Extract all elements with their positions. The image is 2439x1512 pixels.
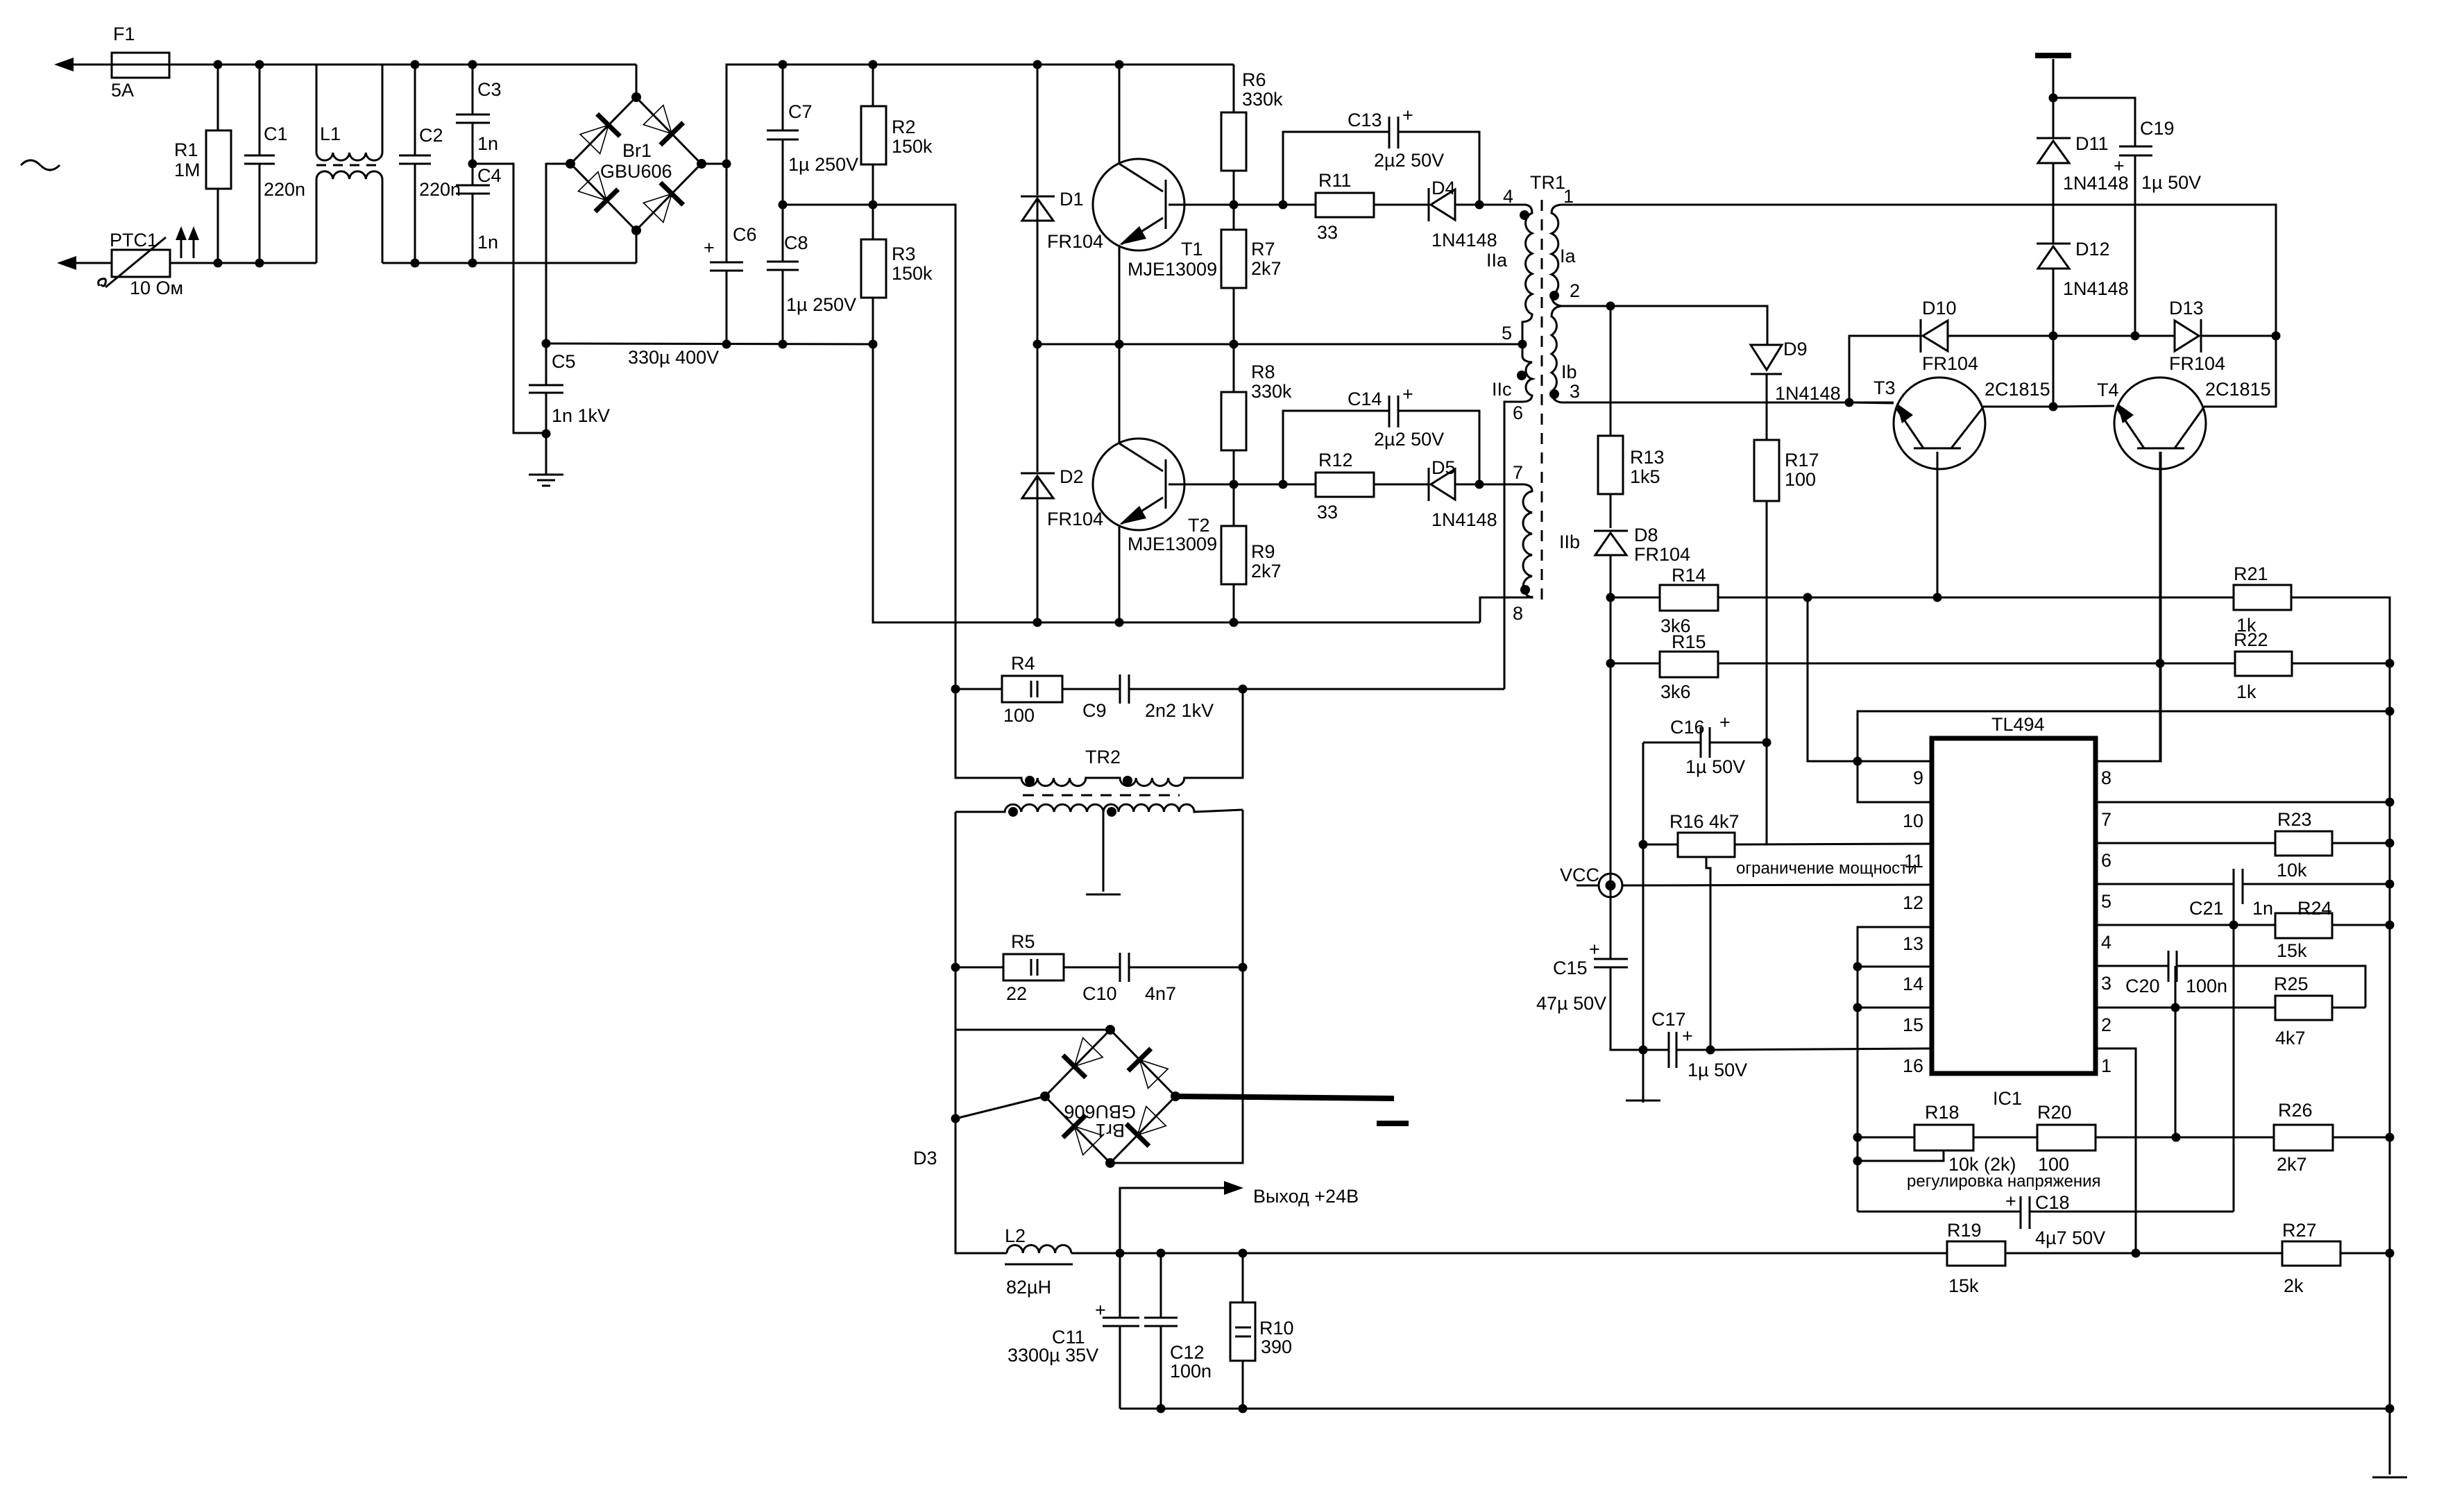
wire C3/C4 mid to down-column bbox=[473, 164, 546, 433]
wire T2 base line bbox=[1234, 484, 1283, 486]
TR1 winding IIc bbox=[1492, 344, 1532, 689]
svg-text:Ia: Ia bbox=[1560, 246, 1577, 266]
node T4 base / R22 bbox=[2156, 659, 2165, 668]
svg-text:GBU606: GBU606 bbox=[600, 161, 672, 182]
resistor R27 bbox=[2282, 1220, 2340, 1296]
node R8 bottom / T2 base bbox=[1230, 480, 1239, 489]
power bar top right bbox=[2035, 56, 2071, 98]
node bottom rail right bbox=[2386, 1404, 2395, 1413]
svg-text:22: 22 bbox=[1006, 983, 1027, 1004]
node C20 drop bbox=[2171, 1003, 2180, 1012]
svg-text:1n: 1n bbox=[477, 133, 498, 154]
wire C17 to pin16 bbox=[1710, 1048, 1932, 1050]
svg-text:2: 2 bbox=[2101, 1014, 2111, 1035]
wire to TR1 pin4 bbox=[1479, 204, 1525, 206]
svg-text:TR1: TR1 bbox=[1530, 172, 1565, 193]
svg-text:+: + bbox=[704, 237, 715, 258]
svg-text:1N4148: 1N4148 bbox=[1431, 230, 1497, 250]
inductor L1 (common-mode choke) bbox=[316, 65, 382, 263]
svg-text:D5: D5 bbox=[1431, 457, 1456, 478]
resistor R3 bbox=[861, 205, 933, 344]
svg-text:5A: 5A bbox=[111, 80, 134, 101]
svg-text:4: 4 bbox=[2101, 932, 2111, 953]
svg-text:L1: L1 bbox=[320, 124, 341, 144]
svg-text:10 Ом: 10 Ом bbox=[130, 278, 183, 298]
node D1 top bbox=[1033, 60, 1042, 69]
capacitor C2 bbox=[399, 65, 461, 263]
capacitor C16 bbox=[1643, 712, 1767, 777]
svg-text:2k: 2k bbox=[2284, 1275, 2304, 1296]
diode D1 bbox=[1021, 65, 1103, 344]
node D2 bottom bbox=[1033, 618, 1042, 627]
node C10 right bbox=[1239, 963, 1248, 972]
node C17 right bbox=[1706, 1046, 1715, 1055]
TR1 winding Ib bbox=[1552, 306, 1577, 402]
svg-text:6: 6 bbox=[2101, 850, 2111, 871]
svg-text:2µ2 50V: 2µ2 50V bbox=[1374, 429, 1444, 450]
ground bbox=[529, 475, 563, 486]
node C3 top bbox=[468, 60, 477, 69]
svg-text:+: + bbox=[2005, 1191, 2016, 1212]
transistor T1 bbox=[1093, 65, 1234, 344]
svg-text:C16: C16 bbox=[1670, 717, 1705, 738]
node Br1 top bbox=[631, 92, 641, 102]
svg-text:+: + bbox=[1402, 105, 1413, 126]
node C16 right bbox=[1762, 738, 1771, 747]
node TR1 pin3 phase dot bbox=[1549, 389, 1559, 399]
ground bottom right bbox=[2372, 1409, 2407, 1477]
resistor R15 bbox=[1611, 631, 2235, 702]
node bridge2 bottom bbox=[1105, 1158, 1115, 1168]
svg-text:R6: R6 bbox=[1242, 69, 1266, 90]
wire AC-mid line bbox=[546, 343, 873, 344]
resistor R8 bbox=[1221, 344, 1292, 484]
node T1 emitter bbox=[1115, 340, 1124, 349]
svg-text:4µ7 50V: 4µ7 50V bbox=[2035, 1228, 2105, 1248]
svg-text:390: 390 bbox=[1261, 1336, 1292, 1357]
node T1 collector top bbox=[1115, 60, 1124, 69]
node D1 mid bbox=[1033, 340, 1042, 349]
AC input arrow bottom bbox=[57, 256, 112, 270]
svg-text:IIb: IIb bbox=[1559, 532, 1580, 552]
svg-text:100: 100 bbox=[1003, 705, 1035, 726]
node R6 bottom / T1 base bbox=[1230, 201, 1239, 210]
ground C15/C17 bbox=[1626, 1100, 1660, 1102]
resistor R7 bbox=[1221, 205, 1282, 344]
node pin7 right bbox=[2386, 798, 2395, 807]
pin 9 bbox=[1808, 597, 1932, 788]
svg-text:16: 16 bbox=[1903, 1055, 1923, 1076]
node D3 tap bbox=[951, 1114, 960, 1123]
TR1 winding IIa bbox=[1486, 205, 1532, 344]
wire Br1 + output to C6 bbox=[702, 163, 726, 165]
IC1 TL494 box bbox=[1932, 714, 2096, 1109]
transistor T4 bbox=[2053, 336, 2276, 761]
pin 13 bbox=[1858, 927, 1932, 1212]
diode D4 bbox=[1429, 178, 1497, 250]
svg-text:1µ 250V: 1µ 250V bbox=[786, 294, 856, 315]
svg-text:C6: C6 bbox=[733, 224, 757, 245]
svg-text:100n: 100n bbox=[2186, 976, 2227, 996]
wire TR2 secondary left down bbox=[955, 812, 957, 1253]
svg-text:FR104: FR104 bbox=[1047, 231, 1103, 252]
svg-text:PTC1: PTC1 bbox=[110, 230, 158, 250]
svg-text:8: 8 bbox=[2101, 767, 2111, 788]
node R7 bottom bbox=[1230, 340, 1239, 349]
pin 14 bbox=[1858, 967, 1932, 994]
svg-text:11: 11 bbox=[1904, 851, 1923, 872]
svg-text:T3: T3 bbox=[1873, 377, 1896, 398]
svg-text:R22: R22 bbox=[2234, 629, 2268, 650]
svg-text:T4: T4 bbox=[2097, 380, 2119, 400]
wire bottom rail after L1 bbox=[382, 262, 636, 264]
svg-text:C1: C1 bbox=[264, 124, 288, 144]
svg-text:2k7: 2k7 bbox=[1251, 258, 1282, 279]
svg-text:GBU606: GBU606 bbox=[1064, 1101, 1136, 1122]
svg-text:1µ 50V: 1µ 50V bbox=[1688, 1060, 1747, 1080]
capacitor C18 (electrolytic) bbox=[2005, 1191, 2234, 1248]
svg-text:D12: D12 bbox=[2075, 239, 2110, 260]
wire TR2 secondary right down bbox=[1242, 810, 1244, 1161]
svg-text:FR104: FR104 bbox=[1922, 353, 1978, 374]
svg-text:2µ2 50V: 2µ2 50V bbox=[1374, 150, 1444, 171]
svg-text:Br1: Br1 bbox=[622, 140, 652, 161]
diode D10 bbox=[1849, 298, 2053, 402]
svg-text:100: 100 bbox=[1785, 469, 1816, 490]
resistor R19 bbox=[1947, 1220, 2005, 1296]
node C13 tap bbox=[1279, 201, 1288, 210]
svg-text:12: 12 bbox=[1903, 892, 1923, 913]
resistor R22 bbox=[2234, 629, 2390, 702]
node R9 bottom bbox=[1230, 618, 1239, 627]
node TR1 IIa phase dot bbox=[1520, 210, 1529, 220]
resistor R6 bbox=[1221, 65, 1283, 205]
wire R3 bottom to emitter rail bbox=[873, 344, 1480, 622]
node pin14 bracket bbox=[1853, 962, 1862, 971]
svg-text:R23: R23 bbox=[2277, 809, 2312, 830]
wire bottom return rail bbox=[1120, 1408, 2390, 1410]
svg-text:1µ 250V: 1µ 250V bbox=[788, 154, 858, 175]
svg-text:4: 4 bbox=[1503, 186, 1513, 207]
node pin9 bracket bbox=[1853, 757, 1862, 766]
svg-text:R9: R9 bbox=[1251, 541, 1275, 562]
node C5 top bbox=[542, 339, 551, 348]
svg-text:FR104: FR104 bbox=[1047, 509, 1103, 529]
svg-text:10: 10 bbox=[1903, 810, 1923, 831]
svg-text:VCC: VCC bbox=[1560, 865, 1599, 885]
inrush arrows bbox=[176, 226, 199, 258]
svg-text:C9: C9 bbox=[1082, 700, 1107, 721]
svg-text:15k: 15k bbox=[1948, 1275, 1979, 1296]
diode D11 bbox=[2037, 98, 2129, 244]
wire TR1 pin2 line bbox=[1561, 306, 1767, 345]
thick output wire from bridge2 right bbox=[1175, 1096, 1394, 1098]
svg-text:1µ 50V: 1µ 50V bbox=[2141, 172, 2201, 193]
wire bridge2 bottom to right column bbox=[1110, 1161, 1243, 1163]
resistor R1 bbox=[174, 65, 231, 263]
svg-text:1n 1kV: 1n 1kV bbox=[552, 405, 610, 426]
TR1 core dashed bbox=[1541, 200, 1543, 602]
node D5 out bbox=[1475, 480, 1484, 489]
node R18 wiper bbox=[1853, 1157, 1862, 1166]
svg-text:+: + bbox=[1095, 1300, 1106, 1320]
wire R17 bottom to R16 line bbox=[1766, 742, 1768, 844]
wire C21/C18 riser bbox=[2233, 904, 2235, 1212]
resistor R11 bbox=[1283, 170, 1429, 243]
svg-text:7: 7 bbox=[1513, 462, 1523, 483]
pin 7 bbox=[2096, 802, 2390, 830]
node C1 top bbox=[255, 60, 264, 69]
node R2 top bbox=[869, 60, 878, 69]
TR2 center tap ground bbox=[1086, 812, 1121, 894]
pin 16 bbox=[1903, 1055, 1923, 1076]
svg-text:FR104: FR104 bbox=[1634, 544, 1690, 565]
svg-text:FR104: FR104 bbox=[2169, 353, 2225, 374]
svg-text:2k7: 2k7 bbox=[1251, 561, 1282, 581]
PTC1 bbox=[99, 230, 183, 298]
node R18 left bbox=[1853, 1133, 1862, 1142]
svg-text:330k: 330k bbox=[1251, 381, 1292, 402]
thick stub mark bbox=[1377, 1121, 1409, 1126]
node R24 left / C21 drop bbox=[2229, 921, 2238, 930]
svg-text:R12: R12 bbox=[1318, 450, 1353, 470]
svg-text:15: 15 bbox=[1903, 1014, 1923, 1035]
svg-text:T1: T1 bbox=[1181, 239, 1203, 260]
svg-text:R20: R20 bbox=[2037, 1102, 2072, 1123]
wire TR1 pin3 line bbox=[1561, 402, 1894, 404]
svg-text:13: 13 bbox=[1903, 933, 1923, 954]
node TR1 pin2 phase dot bbox=[1549, 291, 1559, 300]
node C2 bottom bbox=[411, 259, 420, 268]
node R26 right bbox=[2386, 1133, 2395, 1142]
svg-text:F1: F1 bbox=[113, 24, 135, 44]
capacitor C19 (electrolytic) bbox=[2114, 118, 2201, 336]
svg-text:1N4148: 1N4148 bbox=[1775, 383, 1841, 404]
node R20 right bbox=[2172, 1133, 2181, 1142]
svg-text:6: 6 bbox=[1513, 402, 1523, 423]
node R13 top bbox=[1606, 302, 1615, 311]
node C6 bottom bbox=[722, 340, 731, 349]
node snubber/TR2 right tap bbox=[1239, 685, 1248, 694]
svg-text:регулировка напряжения: регулировка напряжения bbox=[1907, 1172, 2101, 1191]
svg-text:D13: D13 bbox=[2169, 298, 2204, 318]
svg-text:3: 3 bbox=[2101, 973, 2111, 994]
node D10/D12 junction bbox=[2049, 332, 2058, 341]
svg-text:D3: D3 bbox=[913, 1148, 937, 1169]
svg-text:C8: C8 bbox=[784, 232, 808, 253]
svg-text:+: + bbox=[1402, 384, 1413, 405]
svg-text:5: 5 bbox=[1502, 323, 1512, 343]
node C3/C4 midpoint bbox=[468, 160, 477, 169]
svg-text:1k: 1k bbox=[2236, 681, 2257, 702]
node TR2 secondary phase dot b bbox=[1107, 807, 1116, 817]
svg-text:R18: R18 bbox=[1925, 1102, 1960, 1123]
capacitor C6 (electrolytic) bbox=[628, 164, 757, 368]
wire C6 vertical and DC+ rail start bbox=[726, 65, 1234, 164]
capacitor C11 (electrolytic) bbox=[1008, 1253, 1139, 1409]
node R14 right riser bbox=[1803, 593, 1812, 602]
node Br1 bottom bbox=[631, 226, 641, 235]
svg-text:D10: D10 bbox=[1922, 298, 1957, 318]
capacitor C14 bbox=[1283, 384, 1479, 484]
svg-text:2C1815: 2C1815 bbox=[1985, 379, 2050, 400]
diode D8 bbox=[1594, 525, 1690, 597]
svg-text:+: + bbox=[1682, 1026, 1693, 1046]
AC source tilde bbox=[21, 160, 60, 170]
capacitor C8 bbox=[767, 205, 856, 344]
svg-text:R1: R1 bbox=[174, 139, 198, 160]
wire to TR1 pin7 bbox=[1479, 484, 1524, 486]
bridge rectifier Br1 bbox=[571, 97, 702, 230]
node T3 base tap bbox=[1933, 593, 1942, 602]
node R2/R3 mid bbox=[869, 201, 878, 210]
svg-text:D4: D4 bbox=[1431, 178, 1456, 198]
wire bottom rail corner to bridge bbox=[636, 230, 638, 263]
diode D9 bbox=[1751, 339, 1841, 440]
svg-text:1n: 1n bbox=[477, 232, 498, 253]
svg-text:D2: D2 bbox=[1060, 466, 1084, 487]
svg-text:C19: C19 bbox=[2140, 118, 2175, 139]
resistor R26 bbox=[2274, 1100, 2333, 1175]
svg-text:C13: C13 bbox=[1348, 110, 1382, 130]
wire output rail bbox=[1071, 1252, 2390, 1255]
resistor R2 bbox=[861, 65, 933, 205]
svg-text:+: + bbox=[2114, 155, 2125, 176]
svg-text:15k: 15k bbox=[2277, 940, 2307, 961]
svg-text:330µ 400V: 330µ 400V bbox=[628, 347, 719, 368]
svg-text:33: 33 bbox=[1317, 502, 1338, 523]
resistor R13 bbox=[1598, 306, 1665, 528]
resistor R5 (fusible) bbox=[955, 931, 1120, 1004]
svg-text:IIc: IIc bbox=[1492, 379, 1512, 400]
node R27 right bbox=[2386, 1249, 2395, 1258]
node TR2 primary phase dot a bbox=[1025, 776, 1035, 785]
svg-text:100n: 100n bbox=[1170, 1361, 1212, 1382]
pin 10 + bracket bbox=[1858, 711, 2390, 831]
resistor R18 (trimmer) bbox=[1858, 1102, 2016, 1175]
wire top rail corner to bridge bbox=[636, 65, 638, 97]
svg-text:1N4148: 1N4148 bbox=[2063, 278, 2129, 299]
node TR1 IIc phase dot bbox=[1517, 371, 1527, 380]
node R10 bottom bbox=[1239, 1404, 1248, 1413]
svg-text:3k6: 3k6 bbox=[1660, 681, 1691, 702]
node D4 out bbox=[1475, 201, 1484, 210]
wire R18/R20/R26 line bbox=[1858, 1137, 2390, 1139]
resistor R14 bbox=[1611, 565, 2234, 636]
svg-text:R15: R15 bbox=[1672, 631, 1706, 652]
node C4 bottom bbox=[468, 259, 477, 268]
resistor R16 bbox=[1643, 811, 1932, 857]
node R1 top bbox=[214, 60, 223, 69]
svg-text:2C1815: 2C1815 bbox=[2205, 379, 2271, 400]
capacitor C10 bbox=[1082, 953, 1243, 1004]
svg-text:C2: C2 bbox=[419, 125, 443, 146]
svg-text:1M: 1M bbox=[174, 160, 201, 180]
svg-text:1µ 50V: 1µ 50V bbox=[1685, 756, 1745, 777]
svg-text:ограничение мощности: ограничение мощности bbox=[1736, 859, 1917, 878]
node bridge2 left bbox=[1040, 1091, 1050, 1101]
capacitor C7 bbox=[767, 65, 858, 205]
svg-text:C14: C14 bbox=[1348, 389, 1382, 409]
node R24 right bbox=[2386, 921, 2395, 930]
svg-text:D1: D1 bbox=[1060, 189, 1084, 210]
AC input arrow top bbox=[54, 58, 112, 71]
svg-text:1: 1 bbox=[2101, 1055, 2111, 1076]
svg-text:R24: R24 bbox=[2297, 898, 2332, 919]
resistor R9 bbox=[1221, 484, 1282, 622]
svg-text:150k: 150k bbox=[892, 263, 933, 284]
svg-text:150k: 150k bbox=[892, 136, 933, 157]
capacitor C9 bbox=[1082, 674, 1504, 721]
svg-text:9: 9 bbox=[1913, 767, 1923, 788]
pin 11 bbox=[1904, 851, 1923, 872]
wire Br1 left vertex column bbox=[546, 164, 570, 343]
resistor R17 bbox=[1754, 440, 1819, 742]
svg-text:Выход +24В: Выход +24В bbox=[1253, 1186, 1359, 1207]
svg-text:2n2 1kV: 2n2 1kV bbox=[1145, 700, 1214, 721]
svg-text:C18: C18 bbox=[2035, 1192, 2070, 1213]
fuse F1 bbox=[111, 24, 169, 101]
wire C20 to pin2/R18 line bbox=[2175, 966, 2177, 1137]
svg-text:C3: C3 bbox=[477, 79, 502, 100]
svg-text:220n: 220n bbox=[264, 179, 305, 200]
node C7 top bbox=[779, 60, 788, 69]
TR2 core dashed bbox=[1023, 795, 1180, 797]
svg-text:C17: C17 bbox=[1651, 1009, 1686, 1030]
wire R16 wiper bbox=[1706, 857, 1710, 1050]
node TR1 IIb phase dot bbox=[1520, 585, 1530, 595]
wire D10 line to D13 bbox=[2053, 335, 2175, 337]
capacitor C3 bbox=[456, 65, 502, 164]
svg-text:220n: 220n bbox=[419, 179, 461, 200]
node TR2 primary phase dot b bbox=[1123, 776, 1132, 785]
svg-text:C4: C4 bbox=[477, 165, 502, 186]
svg-text:R7: R7 bbox=[1251, 239, 1275, 260]
svg-text:+: + bbox=[1589, 939, 1600, 960]
wire R18 net down to C18 bbox=[1858, 1211, 2021, 1213]
resistor R12 bbox=[1283, 450, 1429, 523]
svg-text:IIa: IIa bbox=[1486, 250, 1508, 271]
node bracket line right bbox=[2386, 707, 2395, 716]
diode D12 bbox=[2037, 239, 2129, 336]
node R4 left bbox=[951, 685, 960, 694]
wire T1 base line bbox=[1234, 204, 1283, 206]
capacitor C15 (electrolytic) bbox=[1536, 939, 1628, 1014]
svg-text:3300µ 35V: 3300µ 35V bbox=[1008, 1345, 1098, 1366]
node R1 bottom bbox=[214, 259, 223, 268]
svg-text:3: 3 bbox=[1570, 381, 1580, 402]
node C15/C17 junction bbox=[1639, 1046, 1648, 1055]
transistor T2 bbox=[1093, 344, 1234, 622]
pin 15 + bracket bbox=[1858, 1008, 1932, 1035]
node R19 right / pin1 drop bbox=[2132, 1249, 2141, 1258]
pin 6 + R23 bbox=[2096, 809, 2390, 881]
capacitor C17 bbox=[1643, 1009, 1747, 1080]
svg-text:7: 7 bbox=[2101, 809, 2111, 830]
svg-text:2: 2 bbox=[1570, 280, 1580, 301]
TR2 primary row bbox=[955, 689, 1243, 786]
node pin15 bracket bbox=[1853, 1003, 1862, 1012]
node C12 bottom bbox=[1157, 1404, 1166, 1413]
node bridge2 top bbox=[1105, 1025, 1115, 1035]
node R22 right bbox=[2386, 659, 2395, 668]
node C7 bottom / mid rail bbox=[779, 201, 788, 210]
node C6 tap bbox=[722, 160, 731, 169]
svg-text:330k: 330k bbox=[1242, 89, 1283, 110]
svg-text:R3: R3 bbox=[892, 244, 916, 264]
node R3 bottom bbox=[869, 340, 878, 349]
node T3 line tap bbox=[1845, 398, 1854, 407]
